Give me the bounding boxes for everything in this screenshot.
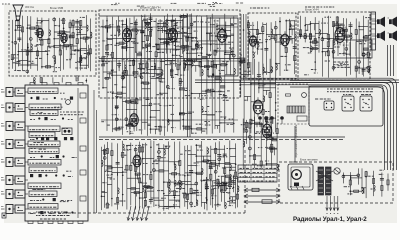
svg-text:Звукосниматель приемника: Звукосниматель приемника — [294, 124, 298, 158]
svg-text:Блок питания: Блок питания — [300, 158, 318, 162]
svg-text:Блок УНЧ: Блок УНЧ — [305, 8, 319, 12]
svg-text:Блок УКВ: Блок УКВ — [50, 6, 63, 10]
svg-text:300 Ом: 300 Ом — [25, 5, 34, 9]
svg-text:Радиолы Урал-1, Урал-2: Радиолы Урал-1, Урал-2 — [293, 216, 367, 223]
svg-text:Блок КСДВ-ПЧ: Блок КСДВ-ПЧ — [140, 6, 161, 10]
